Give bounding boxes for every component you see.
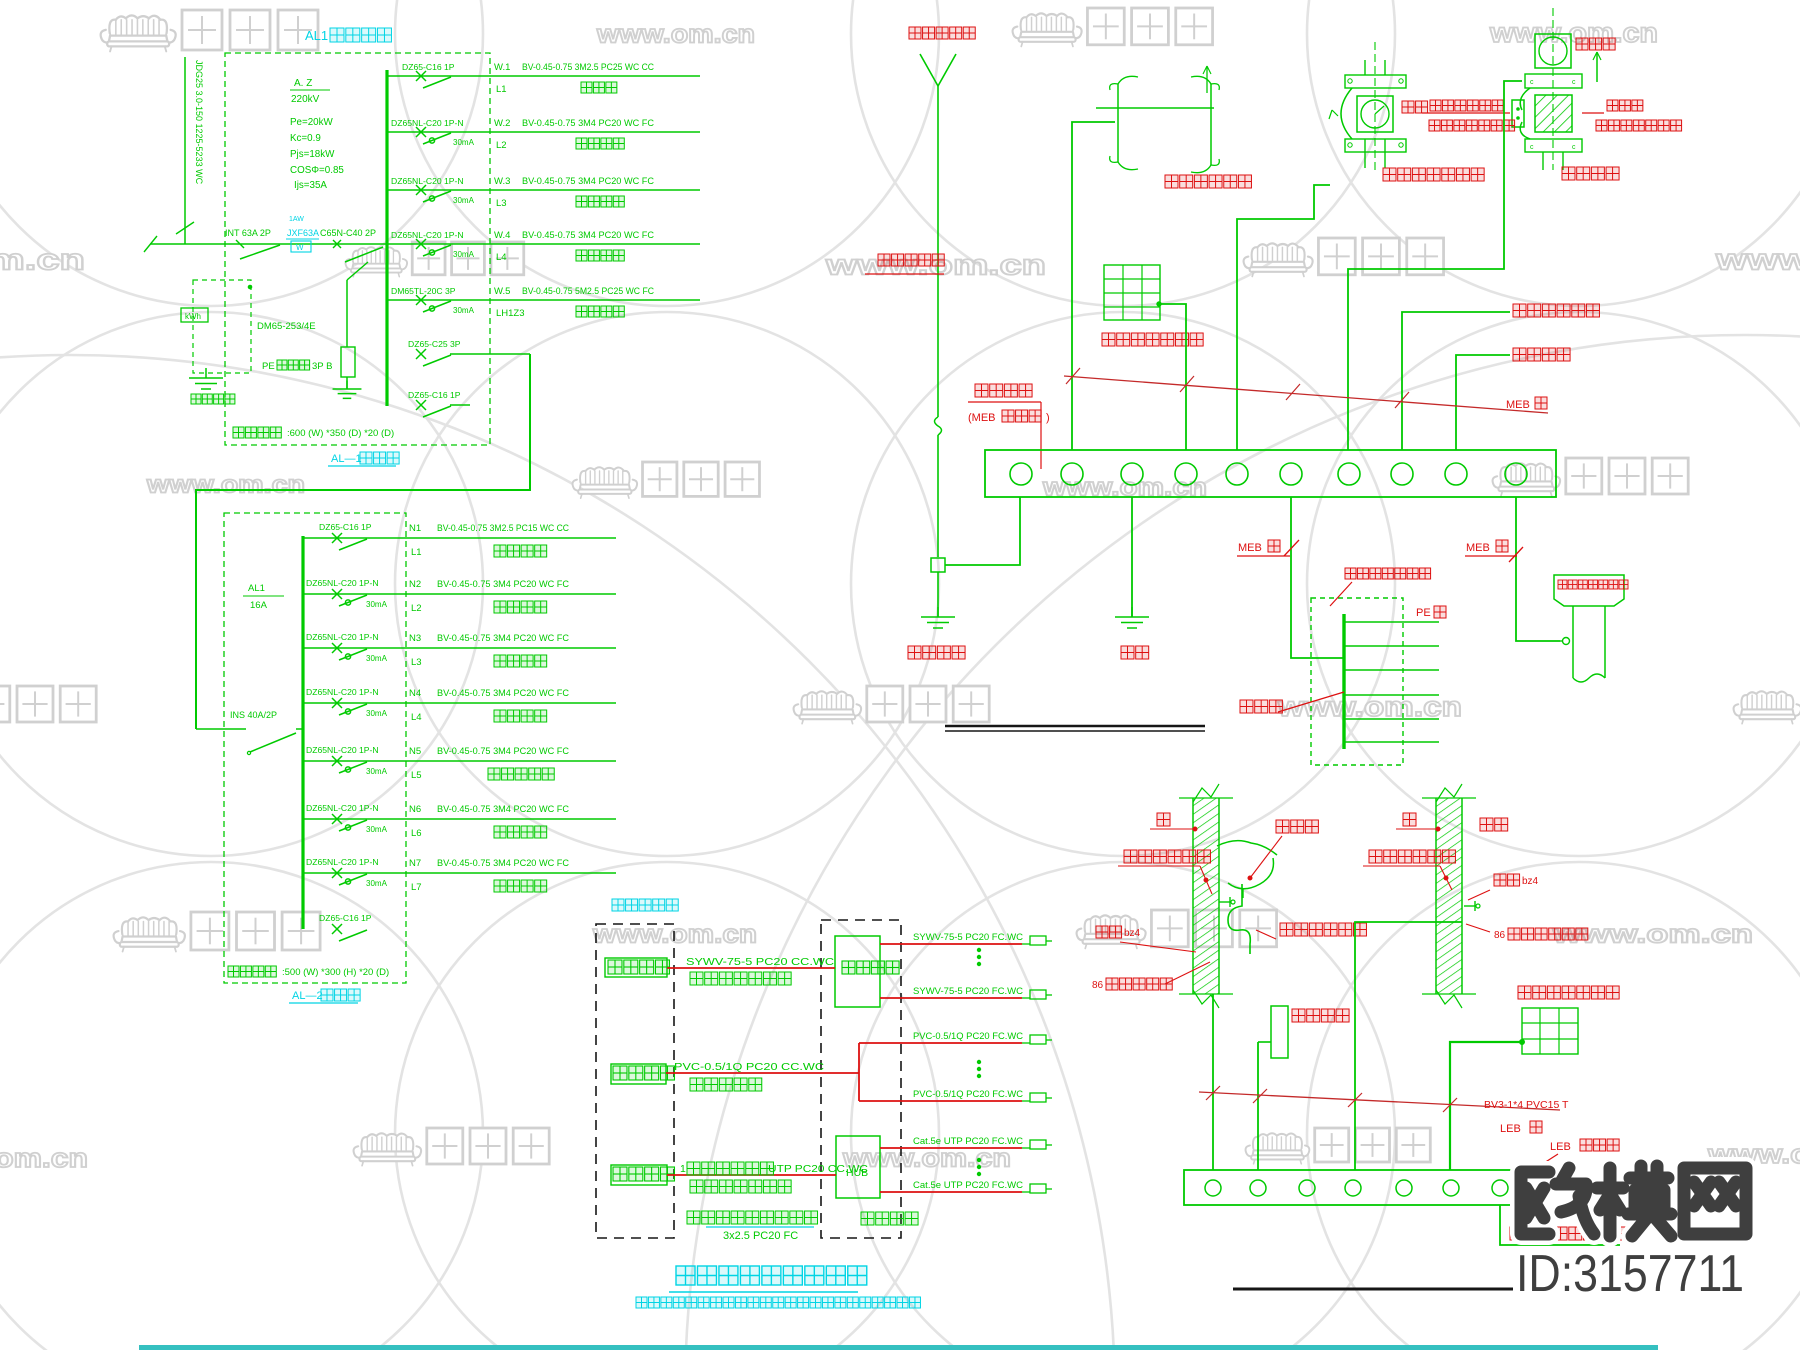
wire phone bus (red) [858, 1043, 860, 1101]
outlet TV 2 [1022, 990, 1052, 999]
TV splitter box [605, 958, 669, 977]
svg-text:PE: PE [262, 361, 275, 372]
label wall right (red) [1396, 813, 1440, 831]
outlet phone 1 [1022, 1035, 1052, 1044]
ground pipe earthing [937, 607, 939, 617]
drain pipe with label [1554, 575, 1628, 682]
svg-text:PVC-0.5/1Q PC20 FC.WC: PVC-0.5/1Q PC20 FC.WC [913, 1031, 1023, 1042]
svg-text:DZ65NL-C20 1P-N: DZ65NL-C20 1P-N [306, 857, 379, 867]
label circuit L5 name [411, 768, 554, 781]
label insulation section (red) [1582, 100, 1682, 131]
node net outputs ellipsis [977, 1158, 980, 1161]
svg-text:DZ65-C16 1P: DZ65-C16 1P [402, 62, 455, 72]
label phone entry cable [674, 1061, 824, 1091]
svg-text::500 (W) *300 (H) *20 (D): :500 (W) *300 (H) *20 (D) [282, 967, 389, 978]
svg-text:bz4: bz4 [1522, 876, 1539, 887]
breaker QB5 DZ65NL-C20 1P-N [306, 745, 388, 776]
terminal 7 of MEB bar [1338, 463, 1360, 485]
svg-text:c: c [1530, 79, 1534, 86]
wire down conductor break [935, 417, 942, 557]
breaker QB8 DZ65-C16 1P spare [319, 913, 372, 941]
svg-text:BV-0.45-0.75 3M4 PC20 WC FC: BV-0.45-0.75 3M4 PC20 WC FC [522, 230, 654, 240]
svg-text:30mA: 30mA [453, 306, 475, 315]
svg-text:c: c [1572, 144, 1576, 151]
label floor weak-current box (cyan) [612, 899, 678, 911]
svg-text:AL—2: AL—2 [292, 990, 323, 1002]
svg-text:DZ65NL-C20 1P-N: DZ65NL-C20 1P-N [306, 632, 379, 642]
svg-text:www.om.cn: www.om.cn [1489, 17, 1658, 48]
wire TV out 1 (red) [880, 943, 1022, 945]
breaker QF3 DZ65NL-C20 1P-N [391, 176, 475, 205]
wire branch W.3 [387, 189, 700, 191]
ground of surge arrester [346, 381, 348, 390]
breaker QF2 DZ65NL-C20 1P-N [391, 118, 475, 147]
svg-text:30mA: 30mA [366, 825, 388, 834]
building steel grid [1104, 265, 1160, 320]
node TV outputs ellipsis [977, 948, 980, 951]
terminal 6 of LEB bar [1443, 1180, 1459, 1196]
switch QS2 INS 40A-2P [196, 710, 303, 755]
svg-text:N7: N7 [409, 858, 421, 869]
wire net out 1 (red) [880, 1147, 1022, 1149]
svg-text:DZ65-C16 1P: DZ65-C16 1P [408, 390, 461, 400]
label building steel (red) [1102, 333, 1203, 346]
label feeder AL1 fraction [243, 583, 284, 611]
terminal 4 of LEB bar [1345, 1180, 1361, 1196]
label weak-current title (cyan) [669, 1266, 867, 1292]
svg-text:N1: N1 [409, 523, 421, 534]
node phone outputs ellipsis [977, 1060, 980, 1063]
svg-text:UTP PC20 CC.WC: UTP PC20 CC.WC [768, 1163, 868, 1175]
label PE line (red) [1416, 606, 1446, 619]
wire water heater bond [1257, 1042, 1259, 1170]
label circuit L7 name [411, 880, 547, 893]
label circuit N1 spec [409, 523, 569, 534]
label pipe earthing (red) [908, 646, 965, 659]
terminal 4 of MEB bar [1175, 463, 1197, 485]
ground electrode of AL1 [205, 368, 207, 378]
label shower (red) [1480, 818, 1508, 831]
wire net out 2 (red) [880, 1191, 1022, 1193]
svg-text:L4: L4 [411, 712, 422, 723]
svg-text:L1: L1 [496, 84, 507, 95]
wire AC duct bond [1072, 122, 1115, 450]
panel AL1 enclosure (dashed box) [225, 53, 490, 445]
svg-text:DZ65-C16 1P: DZ65-C16 1P [319, 913, 372, 923]
svg-text:INT 63A 2P: INT 63A 2P [225, 228, 271, 238]
svg-text:PVC-0.5/1Q PC20 FC.WC: PVC-0.5/1Q PC20 FC.WC [913, 1089, 1023, 1100]
wire MEB to drain pipe [1516, 497, 1560, 641]
svg-text:L4: L4 [496, 252, 507, 263]
teal footer rule [139, 1345, 1658, 1350]
label LEB terminal board (red) [1530, 1139, 1619, 1172]
wire steel grid bond [1157, 302, 1186, 450]
svg-text:30mA: 30mA [453, 138, 475, 147]
spark gap [1512, 100, 1524, 127]
wire branch N2 [303, 593, 616, 595]
label panel title AL1 [305, 28, 391, 43]
breaker QB4 DZ65NL-C20 1P-N [306, 687, 388, 718]
breaker QB2 DZ65NL-C20 1P-N [306, 578, 388, 609]
terminal 3 of LEB bar [1299, 1180, 1315, 1196]
wire right wall bond [1355, 922, 1462, 1170]
label water meter (red) [1402, 101, 1428, 113]
svg-text:N6: N6 [409, 804, 421, 815]
water heater [1258, 1006, 1288, 1058]
label drain pipe metal (red) [1256, 923, 1366, 939]
label power inlet (red) [1513, 348, 1570, 361]
svg-text:1: 1 [680, 1163, 686, 1175]
wire branch N1 [303, 537, 616, 539]
svg-text:L2: L2 [411, 603, 422, 614]
terminal 2 of LEB bar [1250, 1180, 1266, 1196]
svg-text:30mA: 30mA [366, 709, 388, 718]
label circuit W.2 spec [494, 118, 654, 129]
terminal 5 of LEB bar [1396, 1180, 1412, 1196]
label circuit W.3 spec [494, 176, 654, 187]
svg-text:DZ65NL-C20 1P-N: DZ65NL-C20 1P-N [306, 687, 379, 697]
breaker QF0 C65N-C40 2P [320, 228, 383, 262]
bus AL2 vertical busbar [301, 536, 304, 929]
phone splitter box [611, 1064, 674, 1084]
wire water pipe bond [1237, 185, 1330, 450]
label water heater (red) [1288, 1009, 1349, 1042]
label water pipe right (red) [1363, 850, 1455, 890]
svg-text:Cat.5e UTP PC20 FC.WC: Cat.5e UTP PC20 FC.WC [913, 1136, 1023, 1147]
svg-text:MEB: MEB [1466, 542, 1490, 554]
label PE busbar [262, 360, 332, 372]
svg-text:BV-0.45-0.75 3M4 PC20 WC FC: BV-0.45-0.75 3M4 PC20 WC FC [437, 746, 569, 756]
terminal 1 of MEB bar [1010, 463, 1032, 485]
svg-text:kWh: kWh [185, 312, 201, 321]
svg-text:BV-0.45-0.75 5M2.5 PC25 WC FC: BV-0.45-0.75 5M2.5 PC25 WC FC [522, 286, 654, 296]
label circuit L3 name [496, 196, 624, 209]
network switch box [611, 1165, 674, 1185]
label circuit L4 name [496, 250, 624, 263]
label LEB detail title (red) [1510, 1227, 1641, 1240]
label flush outlet box right (red) [1466, 924, 1588, 941]
svg-text:W.4: W.4 [494, 230, 510, 241]
terminal 5 of MEB bar [1226, 463, 1248, 485]
label TV entry cable [686, 956, 835, 985]
breaker QF4 DZ65NL-C20 1P-N [391, 230, 475, 259]
label circuit W.4 spec [494, 230, 654, 241]
wire power-inlet bond [1456, 355, 1510, 450]
switch QS1 INT 63A 2P [225, 228, 280, 259]
svg-text:c: c [1572, 79, 1576, 86]
svg-text:30mA: 30mA [366, 600, 388, 609]
svg-text:A. Z: A. Z [294, 78, 312, 89]
outlet net 1 [1022, 1140, 1052, 1149]
label circuit L1 name [496, 82, 617, 95]
svg-text:BV-0.45-0.75 3M4 PC20 WC FC: BV-0.45-0.75 3M4 PC20 WC FC [437, 633, 569, 643]
svg-text:N2: N2 [409, 579, 421, 590]
wire branch W.1 [387, 75, 700, 77]
svg-text:N4: N4 [409, 688, 421, 699]
label MEB line right (red) [1465, 540, 1523, 562]
svg-text:www.om.cn: www.om.cn [0, 1143, 88, 1173]
unit TV splitter [835, 936, 880, 1007]
svg-text:DZ65-C16 1P: DZ65-C16 1P [319, 522, 372, 532]
surge arrester F1 [341, 262, 368, 389]
washbasin [1217, 841, 1277, 898]
svg-text:L7: L7 [411, 882, 422, 893]
outlet net 2 [1022, 1184, 1052, 1193]
svg-text:www.om.cn: www.om.cn [0, 243, 85, 276]
svg-text:Ijs=35A: Ijs=35A [294, 180, 327, 191]
label circuit N3 spec [409, 633, 569, 644]
terminal 1 of LEB bar [1205, 1180, 1221, 1196]
svg-text:bz4: bz4 [1124, 928, 1141, 939]
breaker QB6 DZ65NL-C20 1P-N [306, 803, 388, 834]
wire branch W.2 [387, 131, 700, 133]
wire branch N4 [303, 702, 616, 704]
svg-text:30mA: 30mA [366, 654, 388, 663]
label flush box left (red) [1092, 962, 1210, 991]
svg-text:Pe=20kW: Pe=20kW [290, 117, 333, 128]
label unit TV splitter [842, 961, 899, 974]
drain trap [1228, 884, 1250, 954]
label water pipe left (red) [1118, 850, 1212, 894]
ground MEB earth [1131, 607, 1133, 617]
wire feeder to AL2 (horizontal) [450, 353, 530, 355]
node LEB terminal bar [1184, 1170, 1520, 1205]
label earth (red) [1121, 646, 1149, 659]
wire gas pipe bond [1348, 81, 1522, 450]
wire MEB conductor diagonal (red) [1064, 368, 1548, 413]
label transformer fraction [290, 78, 330, 105]
terminal 10 of MEB bar [1505, 463, 1527, 485]
terminal 8 of MEB bar [1391, 463, 1413, 485]
bus AL1 vertical busbar [385, 70, 388, 406]
svg-text:L3: L3 [496, 198, 507, 209]
terminal 9 of MEB bar [1445, 463, 1467, 485]
svg-text:Cat.5e UTP PC20 FC.WC: Cat.5e UTP PC20 FC.WC [913, 1180, 1023, 1191]
label electronic info equipment (red) [1513, 304, 1599, 317]
svg-text:): ) [1046, 412, 1050, 424]
terminal 2 of MEB bar [1061, 463, 1083, 485]
wire phone entry (red) [666, 1072, 859, 1074]
wire PE branch y646 [1344, 645, 1439, 647]
wire branch N5 [303, 760, 616, 762]
label diagram title AL-2 [289, 989, 360, 1003]
svg-text:ID:3157711: ID:3157711 [1516, 1245, 1744, 1303]
label MEB busbar (red) [968, 384, 1050, 469]
svg-text:3P B: 3P B [312, 361, 332, 372]
svg-text:BV-0.45-0.75 3M4 PC20 WC FC: BV-0.45-0.75 3M4 PC20 WC FC [437, 579, 569, 589]
label circuit L1 name [411, 545, 547, 558]
black separator line upper [945, 726, 1205, 731]
svg-text:N3: N3 [409, 633, 421, 644]
svg-text:AL1: AL1 [248, 583, 265, 594]
label wall left (red) [1150, 813, 1197, 831]
wire branch W.4 [387, 243, 700, 245]
wire PE branch y670 [1344, 669, 1439, 671]
svg-text:LH1Z3: LH1Z3 [496, 308, 525, 319]
breaker QB1 DZ65-C16 1P [319, 522, 372, 550]
svg-text:1AW: 1AW [289, 216, 304, 223]
svg-text:L5: L5 [411, 770, 422, 781]
svg-text:BV-0.45-0.75 3M4 PC20 WC FC: BV-0.45-0.75 3M4 PC20 WC FC [522, 176, 654, 186]
antenna air terminal [920, 54, 956, 417]
wire TV entry (red) [667, 967, 835, 969]
label bonding line (red) [1240, 692, 1344, 713]
svg-text::600 (W) *350 (D) *20 (D): :600 (W) *350 (D) *20 (D) [287, 428, 394, 439]
svg-text:MEB: MEB [1506, 399, 1530, 411]
svg-text:220kV: 220kV [291, 94, 320, 105]
svg-text:DZ65NL-C20 1P-N: DZ65NL-C20 1P-N [391, 118, 464, 128]
svg-text:PVC-0.5/1Q PC20 CC.WC: PVC-0.5/1Q PC20 CC.WC [674, 1061, 824, 1073]
label circuit L3 name [411, 655, 547, 668]
tap on right wall [1464, 901, 1480, 911]
svg-text:BV-0.45-0.75 3M4 PC20 WC FC: BV-0.45-0.75 3M4 PC20 WC FC [437, 688, 569, 698]
svg-text:86: 86 [1494, 930, 1506, 941]
svg-text:DZ65-C25 3P: DZ65-C25 3P [408, 339, 461, 349]
svg-text:COSΦ=0.85: COSΦ=0.85 [290, 165, 344, 176]
wire TV out 2 (red) [880, 997, 1022, 999]
svg-text:JDG25 3.0-150 1225-5233 WC: JDG25 3.0-150 1225-5233 WC [194, 60, 204, 185]
wall right of bathroom [1436, 798, 1462, 994]
svg-text:L3: L3 [411, 657, 422, 668]
label circuit W.5 spec [494, 286, 654, 297]
wire branch N7 [303, 872, 616, 874]
svg-text:BV-0.45-0.75 3M4 PC20 WC FC: BV-0.45-0.75 3M4 PC20 WC FC [437, 804, 569, 814]
outlet TV 1 [1022, 936, 1052, 945]
wire LEB conductor diagonal (red) [1199, 1086, 1560, 1112]
bus hall PE busbar [1342, 614, 1345, 749]
svg-text:DZ65NL-C20 1P-N: DZ65NL-C20 1P-N [306, 578, 379, 588]
label conduit right (red) [1468, 874, 1539, 900]
svg-text:L2: L2 [496, 140, 507, 151]
wire branch W.5 [387, 299, 700, 301]
svg-text:DZ65NL-C20 1P-N: DZ65NL-C20 1P-N [306, 803, 379, 813]
wire incoming line to bus [144, 236, 387, 252]
label circuit N6 spec [409, 804, 569, 815]
svg-text:SYWV-75-5 PC20 CC.WC: SYWV-75-5 PC20 CC.WC [686, 956, 835, 968]
wire PE branch y622 [1344, 621, 1439, 623]
wire earthing of down conductor [1131, 497, 1133, 617]
breaker QF7 DZ65-C16 1P spare [408, 390, 470, 417]
label circuit N4 spec [409, 688, 569, 699]
svg-text:DM65TL-20C 3P: DM65TL-20C 3P [391, 286, 456, 296]
label conduit left (red) [1096, 926, 1196, 952]
svg-text:C65N-C40 2P: C65N-C40 2P [320, 228, 376, 238]
svg-text:(MEB: (MEB [968, 412, 996, 424]
label spark gap (red) [1422, 100, 1515, 131]
label circuit L2 name [411, 601, 547, 614]
label riser cable spec (vertical) [194, 60, 204, 185]
wire incoming service riser [176, 57, 194, 244]
label network entry cable [680, 1162, 868, 1193]
label home weak box name [861, 1212, 918, 1225]
label diagram title AL-1 [328, 452, 399, 466]
svg-text:AL1: AL1 [305, 28, 328, 43]
svg-text:DZ65NL-C20 1P-N: DZ65NL-C20 1P-N [306, 745, 379, 755]
bathroom steel mesh grid [1522, 1008, 1578, 1054]
label LEB line (red) [1500, 1121, 1542, 1135]
svg-text:30mA: 30mA [366, 767, 388, 776]
wire PE branch y742 [1344, 741, 1439, 743]
svg-text:L1: L1 [411, 547, 422, 558]
gas meter assembly [1520, 8, 1601, 170]
label AL1 enclosure size [233, 427, 394, 439]
svg-text:AL—1: AL—1 [331, 453, 362, 465]
svg-text:c: c [1530, 144, 1534, 151]
label circuit L4 name [411, 710, 547, 723]
wire info-equipment bond [1402, 312, 1510, 450]
label steel mesh (red) [1518, 986, 1619, 999]
unit HUB [836, 1136, 880, 1198]
svg-text:BV3-1*4 PVC15 T: BV3-1*4 PVC15 T [1484, 1099, 1569, 1111]
label main gas pipe (red) [1562, 167, 1619, 180]
terminal 3 of MEB bar [1121, 463, 1143, 485]
svg-text:3x2.5 PC20 FC: 3x2.5 PC20 FC [723, 1230, 798, 1242]
breaker QF5 DM65TL-20C 3P [391, 286, 475, 315]
svg-text:LEB: LEB [1550, 1141, 1571, 1153]
pipe clamp air-conditioning duct [1096, 66, 1219, 173]
label main water pipe (red) [1383, 168, 1484, 181]
label circuit N2 spec [409, 579, 569, 590]
svg-text:BV-0.45-0.75 3M4 PC20 WC FC: BV-0.45-0.75 3M4 PC20 WC FC [522, 118, 654, 128]
breaker QB3 DZ65NL-C20 1P-N [306, 632, 388, 663]
svg-text:SYWV-75-5 PC20 FC.WC: SYWV-75-5 PC20 FC.WC [913, 986, 1023, 997]
svg-text:INS 40A/2P: INS 40A/2P [230, 710, 277, 720]
watermark logo OUMOWANG [1521, 1166, 1746, 1236]
meter kWh [181, 308, 208, 322]
label lightning air-terminal (red) [909, 27, 975, 39]
label weak-current subtitle (cyan) [636, 1297, 920, 1308]
svg-text:www.om.cn: www.om.cn [146, 472, 305, 499]
label circuit LH1Z3 name [496, 306, 624, 319]
junction box hall (dashed) [1311, 598, 1403, 765]
terminal 7 of LEB bar [1492, 1180, 1508, 1196]
label ground electrode [191, 394, 235, 404]
svg-text:Pjs=18kW: Pjs=18kW [290, 149, 335, 160]
wire clamp to MEB bar [945, 497, 1020, 565]
svg-text:N5: N5 [409, 746, 421, 757]
wire left wall bond [1212, 994, 1214, 1170]
svg-text:DZ65NL-C20 1P-N: DZ65NL-C20 1P-N [391, 230, 464, 240]
svg-text:MEB: MEB [1238, 542, 1262, 554]
water meter assembly [1329, 42, 1406, 170]
label MEB line left (red) [1237, 540, 1299, 556]
node test clamp [931, 558, 945, 572]
svg-text:Kc=0.9: Kc=0.9 [290, 133, 321, 144]
meter kWh tag (cyan) [286, 216, 319, 252]
svg-text:L6: L6 [411, 828, 422, 839]
svg-text:LEB: LEB [1500, 1123, 1521, 1135]
svg-text:W.2: W.2 [494, 118, 510, 129]
label circuit N5 spec [409, 746, 569, 757]
svg-text:86: 86 [1092, 980, 1104, 991]
svg-text:DM65-253/4E: DM65-253/4E [257, 321, 316, 332]
svg-text:JXF63A: JXF63A [287, 228, 319, 238]
wire down conductor to earth [937, 572, 939, 617]
wire phone out 2 (red) [859, 1100, 1022, 1102]
breaker QF6 DZ65-C25 3P [408, 339, 461, 366]
label AL2 enclosure size [228, 966, 389, 978]
svg-text:W.5: W.5 [494, 286, 510, 297]
svg-text:W.3: W.3 [494, 176, 510, 187]
wire feeder drop [196, 354, 530, 729]
label power supply note [687, 1211, 818, 1227]
meter sub-box (dashed) [193, 280, 252, 373]
label circuit N7 spec [409, 858, 569, 869]
wire phone out 1 (red) [859, 1042, 1022, 1044]
floor weak-current box (dashed) [596, 924, 674, 1238]
wire PE branch y719 [1344, 718, 1439, 720]
wire network entry (red) [667, 1174, 836, 1176]
